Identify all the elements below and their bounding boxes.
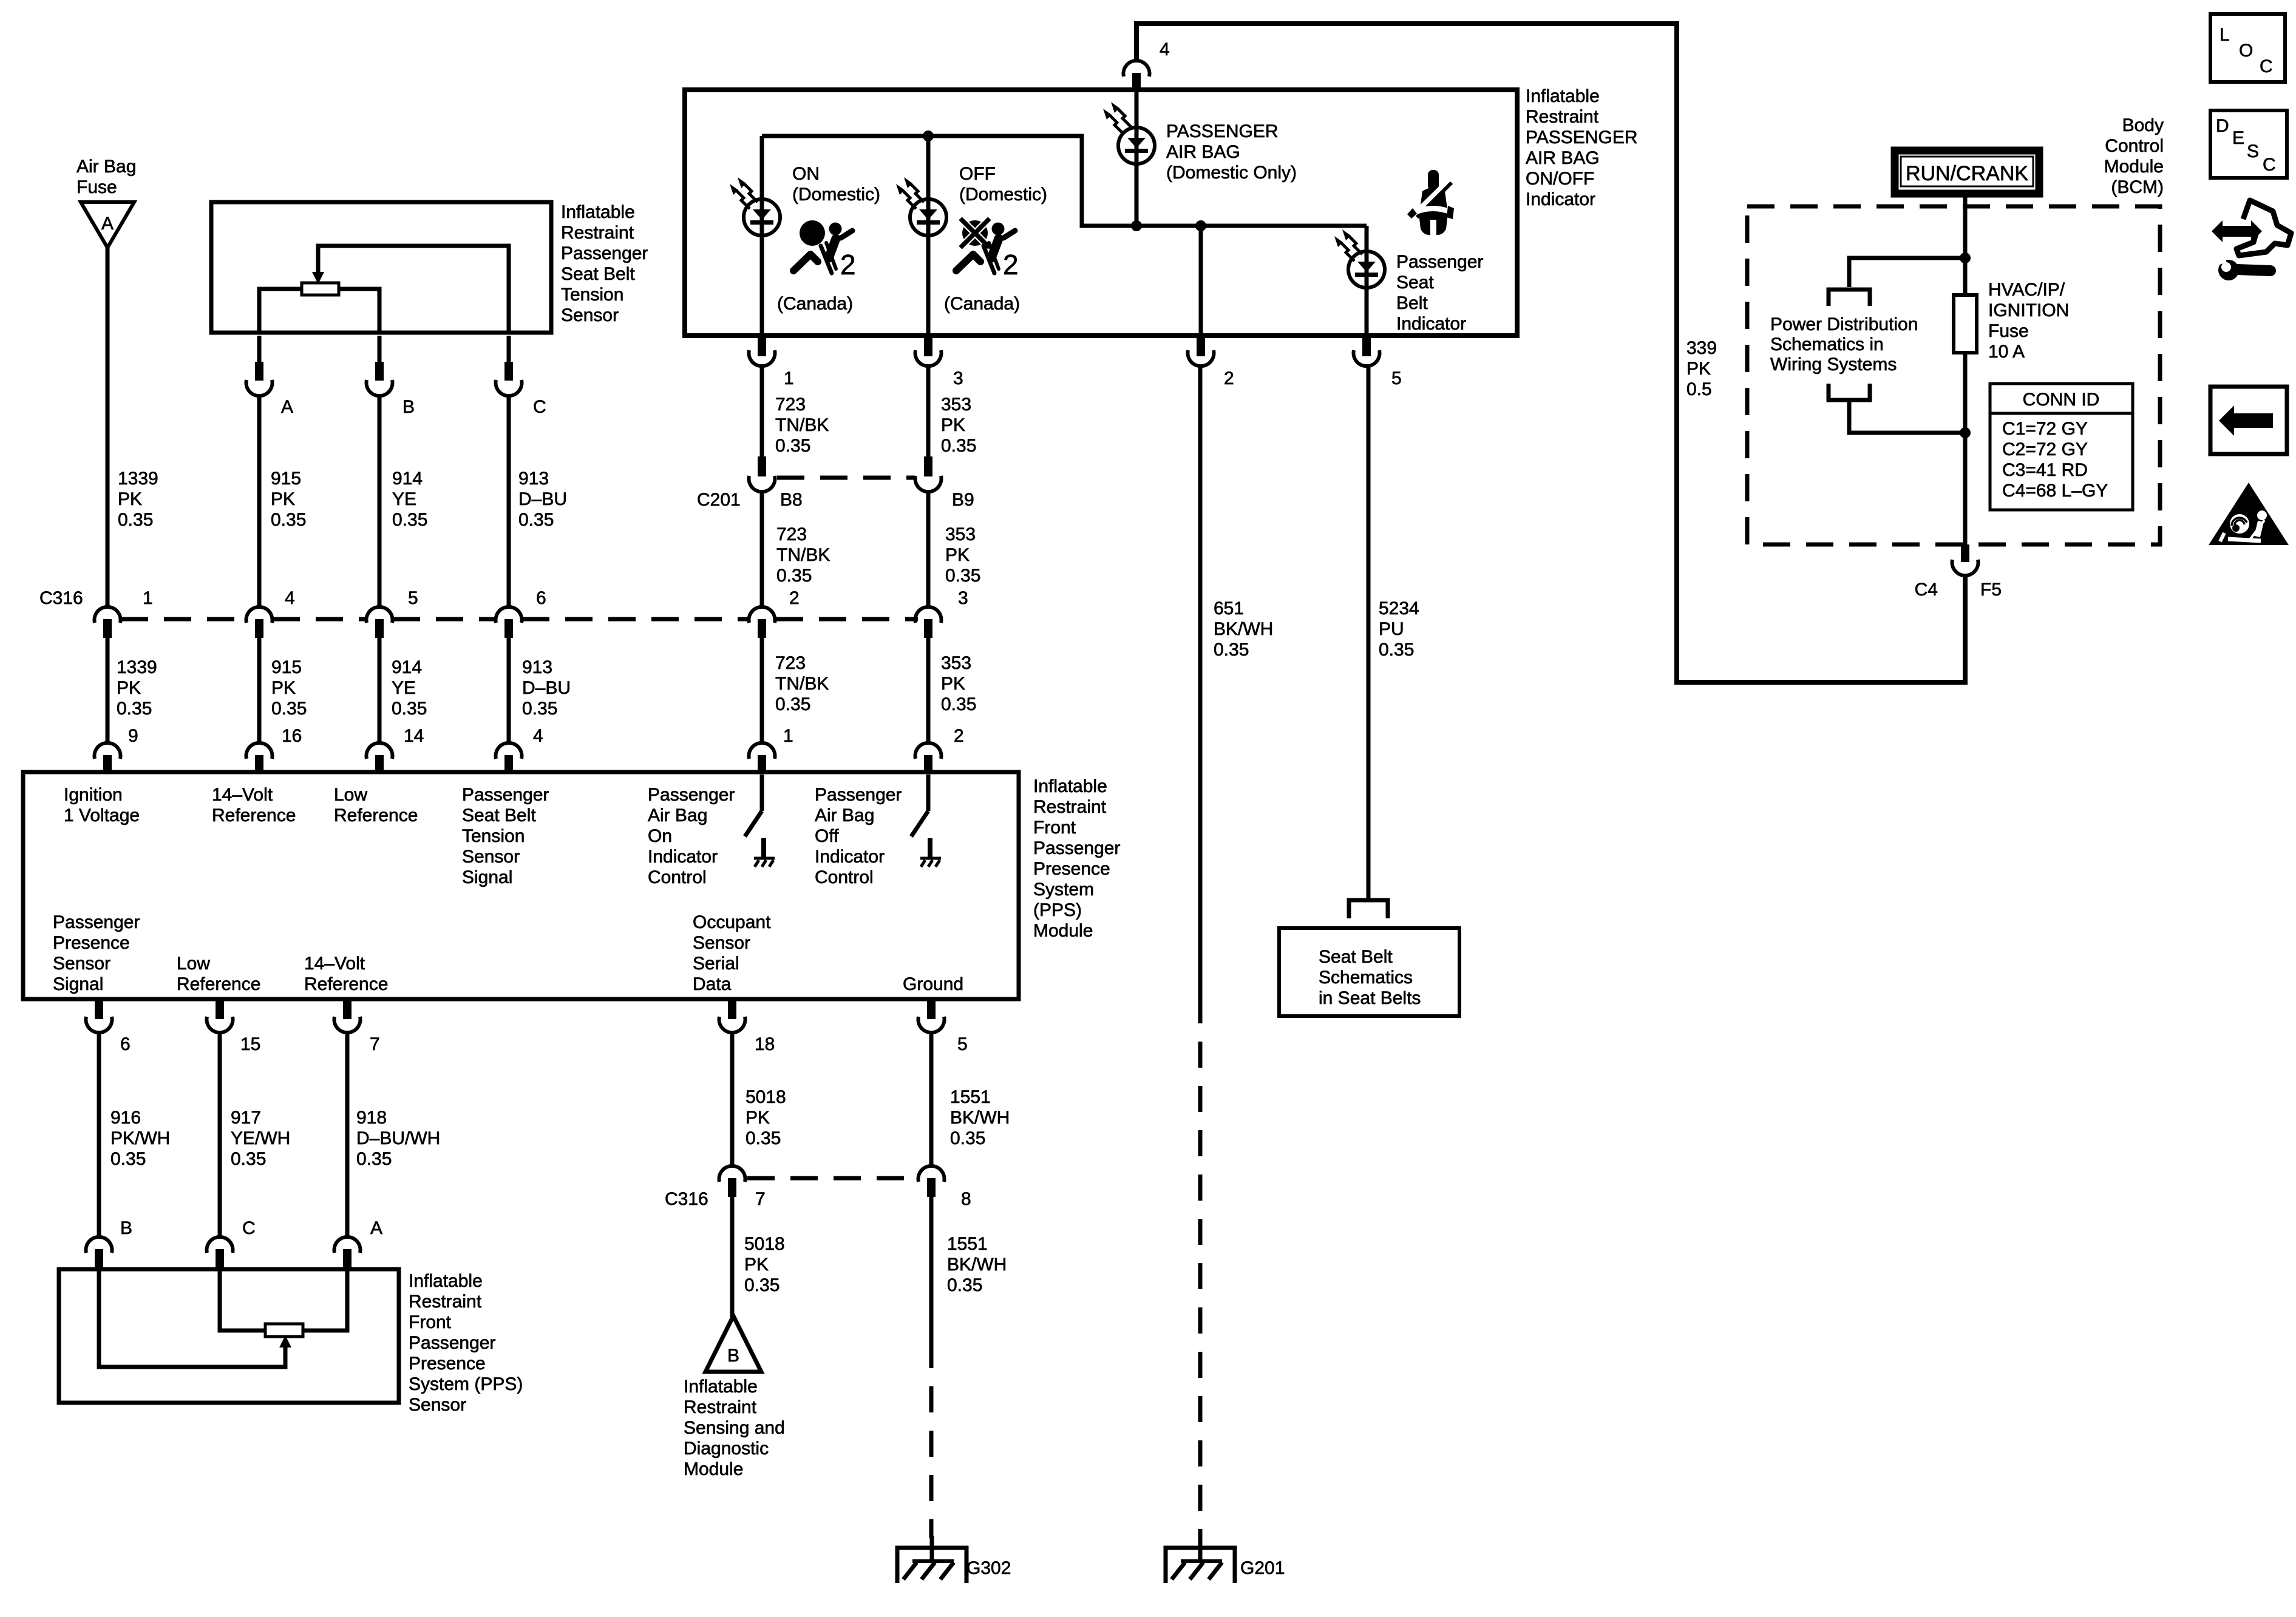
svg-text:On: On	[648, 826, 672, 846]
svg-text:Passenger: Passenger	[53, 912, 140, 932]
wire A leg inside sensor	[303, 1270, 347, 1331]
svg-text:Indicator: Indicator	[648, 847, 718, 867]
svg-text:YE: YE	[392, 678, 416, 698]
svg-text:723: 723	[775, 653, 806, 673]
svg-text:PK: PK	[941, 674, 965, 694]
wire label 353 PK 0.35	[945, 524, 980, 586]
svg-text:6: 6	[536, 588, 546, 608]
Air Bag Fuse label	[76, 157, 136, 197]
svg-text:1 Voltage: 1 Voltage	[64, 805, 140, 825]
svg-text:Occupant: Occupant	[693, 912, 771, 932]
svg-text:0.35: 0.35	[392, 699, 427, 719]
connector C4 F5	[1915, 544, 2002, 600]
svg-text:0.35: 0.35	[118, 510, 153, 530]
svg-text:C4=68 L–GY: C4=68 L–GY	[2002, 481, 2108, 501]
wire indicator pin5 down	[1367, 367, 1371, 898]
svg-text:TN/BK: TN/BK	[775, 674, 829, 694]
wire C316-1 to PPS pin 9	[106, 637, 110, 742]
switch on-indicator blade	[745, 811, 762, 836]
pin label 14-Volt Reference	[212, 785, 296, 825]
svg-text:A: A	[370, 1218, 382, 1238]
svg-text:1: 1	[783, 726, 793, 746]
svg-text:Low: Low	[334, 785, 367, 805]
svg-text:A: A	[281, 397, 293, 417]
wire B9 to C316-3	[926, 492, 931, 606]
pin label Passenger Presence Sensor Signal	[53, 912, 140, 994]
connector sensor pin A	[335, 1218, 383, 1268]
wire pin6 down	[97, 1033, 101, 1236]
svg-text:B8: B8	[780, 490, 803, 510]
CONN ID table	[1990, 384, 2133, 510]
svg-text:PK: PK	[746, 1108, 770, 1128]
svg-text:(BCM): (BCM)	[2111, 177, 2164, 197]
svg-text:(Domestic): (Domestic)	[792, 185, 880, 205]
svg-text:C: C	[2263, 155, 2276, 175]
svg-text:Wiring Systems: Wiring Systems	[1770, 354, 1897, 375]
upper bus wire	[762, 136, 1367, 226]
svg-text:7: 7	[370, 1034, 380, 1054]
svg-text:18: 18	[755, 1034, 775, 1054]
wire label 5018 PK 0.35	[744, 1234, 785, 1295]
wire pin7 down	[345, 1033, 350, 1236]
wire C316-8 solid part	[929, 1196, 934, 1342]
svg-text:C201: C201	[697, 490, 741, 510]
connector sensor pin C	[207, 1218, 256, 1268]
svg-text:PASSENGER: PASSENGER	[1166, 121, 1279, 141]
seat belt tension sensor box	[211, 202, 551, 333]
wire ON LED column	[760, 136, 764, 336]
svg-text:Schematics in: Schematics in	[1770, 334, 1884, 354]
wire C leg inside sensor	[220, 1270, 265, 1331]
svg-text:Sensor: Sensor	[561, 305, 619, 325]
svg-text:PK: PK	[945, 545, 970, 565]
C201 dashed line	[777, 476, 915, 480]
fuse symbol A (triangle)	[81, 202, 134, 248]
label PASSENGER AIR BAG (Domestic Only)	[1166, 121, 1297, 183]
wire pin1 to C201	[760, 367, 764, 456]
svg-text:Sensor: Sensor	[693, 933, 750, 953]
svg-text:in Seat Belts: in Seat Belts	[1319, 988, 1421, 1008]
svg-text:5: 5	[408, 588, 418, 608]
svg-text:C: C	[2260, 56, 2273, 76]
svg-text:15: 15	[240, 1034, 260, 1054]
wire label 651 BK/WH 0.35	[1214, 598, 1273, 660]
wire C leg with wiper arrow	[318, 246, 509, 333]
svg-text:(Domestic): (Domestic)	[959, 185, 1047, 205]
PPS sensor box	[59, 1269, 399, 1403]
wire A leg	[259, 289, 302, 333]
label OFF (Domestic)	[959, 164, 1047, 205]
svg-text:PK: PK	[271, 489, 295, 509]
svg-text:S: S	[2247, 141, 2259, 161]
LED passenger air bag	[1118, 127, 1155, 164]
svg-text:1: 1	[143, 588, 153, 608]
connector C316 pin 1	[95, 588, 153, 638]
svg-text:1339: 1339	[118, 469, 158, 489]
svg-text:Signal: Signal	[462, 867, 512, 887]
wire label 914 YE 0.35	[392, 469, 427, 530]
svg-text:9: 9	[128, 726, 138, 746]
svg-text:Passenger: Passenger	[648, 785, 735, 805]
svg-text:Front: Front	[1033, 818, 1076, 838]
svg-text:Signal: Signal	[53, 974, 103, 994]
svg-text:Reference: Reference	[334, 805, 418, 825]
lower bus continues to seat belt LED	[1365, 226, 1369, 336]
svg-text:Tension: Tension	[462, 826, 525, 846]
wire B to C316-5	[378, 396, 382, 606]
svg-text:D: D	[2216, 116, 2229, 136]
svg-text:System (PPS): System (PPS)	[409, 1374, 523, 1394]
svg-text:(PPS): (PPS)	[1033, 900, 1082, 920]
back arrow icon	[2210, 387, 2287, 454]
ground G201	[1166, 1536, 1285, 1583]
svg-text:Passenger: Passenger	[815, 785, 902, 805]
label Body Control Module (BCM)	[2104, 115, 2164, 197]
svg-text:PK: PK	[1686, 359, 1711, 379]
svg-text:BK/WH: BK/WH	[1214, 619, 1273, 639]
svg-text:B: B	[120, 1218, 132, 1238]
svg-text:0.35: 0.35	[110, 1149, 146, 1169]
connector C316 pin 6	[496, 588, 546, 638]
svg-text:Seat Belt: Seat Belt	[1319, 947, 1393, 967]
svg-text:TN/BK: TN/BK	[775, 415, 829, 435]
svg-text:339: 339	[1686, 338, 1717, 358]
connector pin B of sensor	[367, 336, 415, 417]
svg-text:Restraint: Restraint	[1033, 797, 1107, 817]
wire label 914 YE 0.35	[392, 657, 427, 719]
connector C316 pin 3	[915, 588, 968, 638]
wire label 1339 PK 0.35	[118, 469, 158, 530]
svg-text:BK/WH: BK/WH	[947, 1255, 1007, 1275]
svg-text:5234: 5234	[1379, 598, 1419, 619]
C316 dashed line	[121, 617, 246, 622]
svg-text:913: 913	[518, 469, 549, 489]
feed wire loop from BCM to pin 4	[1136, 24, 1965, 682]
svg-text:A: A	[101, 214, 114, 234]
svg-text:C3=41 RD: C3=41 RD	[2002, 460, 2088, 480]
svg-text:2: 2	[840, 249, 856, 280]
junction dot top	[1960, 253, 1971, 263]
switch off-indicator blade	[911, 811, 928, 836]
svg-text:Seat: Seat	[1396, 273, 1434, 293]
svg-text:4: 4	[285, 588, 295, 608]
connector C201 B8	[697, 456, 803, 510]
sensor box label	[561, 202, 648, 325]
svg-text:14: 14	[404, 726, 424, 746]
svg-text:0.5: 0.5	[1686, 379, 1712, 399]
wire label 723 TN/BK 0.35	[776, 524, 830, 586]
svg-text:L: L	[2220, 25, 2230, 45]
pin label Low Reference	[334, 785, 418, 825]
svg-text:917: 917	[231, 1108, 261, 1128]
airbag warning triangle icon	[2209, 483, 2289, 545]
pin label Ignition 1 Voltage	[64, 785, 140, 825]
svg-text:913: 913	[522, 657, 552, 677]
svg-text:(Domestic Only): (Domestic Only)	[1166, 163, 1297, 183]
seat belt LED	[1348, 251, 1385, 288]
svg-text:HVAC/IP/: HVAC/IP/	[1988, 280, 2065, 300]
seat belt LED arrows	[1334, 229, 1362, 261]
connector PPS pin 18	[719, 1000, 775, 1054]
wire indicator pin2 down solid	[1198, 367, 1203, 997]
indicator assembly label	[1526, 86, 1638, 209]
svg-text:7: 7	[755, 1189, 766, 1209]
wire label 723 TN/BK 0.35	[775, 395, 829, 456]
svg-text:5018: 5018	[746, 1087, 786, 1107]
svg-text:5: 5	[957, 1034, 968, 1054]
svg-text:4: 4	[533, 726, 543, 746]
wire label 723 TN/BK 0.35	[775, 653, 829, 714]
svg-text:Restraint: Restraint	[684, 1397, 757, 1417]
svg-text:PK: PK	[118, 489, 142, 509]
seat belt person icon	[1407, 170, 1454, 235]
PPS module box	[23, 772, 1019, 999]
svg-text:Restraint: Restraint	[409, 1292, 482, 1312]
svg-text:G302: G302	[966, 1558, 1011, 1578]
wire label 353 PK 0.35	[941, 653, 976, 714]
wire label 917 YE/WH 0.35	[231, 1108, 290, 1169]
svg-text:2: 2	[954, 726, 964, 746]
svg-text:Passenger: Passenger	[561, 243, 648, 263]
svg-text:OFF: OFF	[959, 164, 996, 184]
svg-text:2: 2	[1003, 249, 1019, 280]
wire pin18 to C316-7	[730, 1033, 735, 1165]
svg-text:Module: Module	[2104, 157, 2164, 177]
wire pin3 to C201	[926, 367, 931, 456]
svg-text:Air Bag: Air Bag	[648, 805, 707, 825]
wire pin4 down through main LED to bus	[1135, 91, 1139, 226]
wire B leg with wiper arrow	[99, 1270, 285, 1367]
svg-text:Reference: Reference	[177, 974, 260, 994]
wire label 916 PK/WH 0.35	[110, 1108, 170, 1169]
wire OFF LED column	[926, 136, 931, 336]
svg-text:E: E	[2232, 128, 2244, 148]
svg-text:651: 651	[1214, 598, 1244, 619]
svg-text:B9: B9	[952, 490, 974, 510]
svg-text:PK/WH: PK/WH	[110, 1128, 170, 1148]
svg-text:Sensor: Sensor	[53, 954, 110, 974]
svg-text:Presence: Presence	[1033, 859, 1110, 879]
svg-text:O: O	[2239, 41, 2253, 61]
connector C316 pin 4	[246, 588, 295, 638]
svg-text:10 A: 10 A	[1988, 342, 2025, 362]
svg-text:0.35: 0.35	[1379, 640, 1414, 660]
svg-text:Serial: Serial	[693, 954, 739, 974]
label HVAC/IP/ IGNITION Fuse 10 A	[1988, 280, 2069, 362]
svg-text:2: 2	[789, 588, 800, 608]
connector pin C of sensor	[496, 336, 546, 417]
LED arrows	[1103, 102, 1131, 134]
svg-text:Restraint: Restraint	[1526, 107, 1599, 127]
svg-text:0.35: 0.35	[117, 699, 152, 719]
svg-text:0.35: 0.35	[271, 510, 306, 530]
wire pin 2 column	[1199, 226, 1203, 336]
svg-text:C4: C4	[1915, 580, 1938, 600]
svg-text:0.35: 0.35	[775, 436, 810, 456]
BCM dashed box	[1747, 206, 2160, 544]
svg-text:(Canada): (Canada)	[777, 294, 853, 314]
svg-text:0.35: 0.35	[947, 1275, 982, 1295]
svg-text:Indicator: Indicator	[1396, 314, 1466, 334]
wire dashed to G302	[929, 1342, 934, 1538]
connector pin 3	[915, 337, 963, 388]
C316 second dashed line	[747, 1176, 916, 1181]
svg-text:723: 723	[776, 524, 807, 544]
seat belt schematics box	[1279, 928, 1459, 1016]
pin label Passenger Air Bag Off Indicator Control	[815, 785, 902, 887]
connector sensor pin B	[86, 1218, 133, 1268]
svg-text:Passenger: Passenger	[1033, 838, 1120, 858]
wire C316-7 to triangle B	[730, 1196, 735, 1317]
svg-text:Passenger: Passenger	[1396, 252, 1483, 272]
connector C316 pin 8	[919, 1166, 971, 1209]
svg-text:0.35: 0.35	[1214, 640, 1249, 660]
ON LED	[744, 199, 780, 236]
svg-text:Inflatable: Inflatable	[684, 1377, 758, 1397]
cross-reference repair icon	[2212, 200, 2291, 280]
wire fuse to C4 connector	[1963, 353, 1968, 544]
PPS sensor label	[409, 1271, 523, 1415]
svg-text:RUN/CRANK: RUN/CRANK	[1906, 162, 2028, 185]
svg-text:0.35: 0.35	[941, 694, 976, 714]
connector PPS pin 1	[749, 726, 793, 774]
connector PPS pin 2	[915, 726, 964, 774]
wire fuse to C316 pin 1	[106, 248, 110, 606]
svg-text:Air Bag: Air Bag	[815, 805, 874, 825]
svg-text:915: 915	[271, 657, 302, 677]
svg-text:Module: Module	[684, 1459, 743, 1479]
svg-text:Sensing and: Sensing and	[684, 1418, 785, 1438]
junction dot main led	[1131, 220, 1142, 231]
svg-text:B: B	[727, 1346, 739, 1366]
svg-text:C: C	[533, 397, 546, 417]
pin label Passenger Seat Belt Tension Sensor Signal	[462, 785, 549, 887]
svg-text:Seat Belt: Seat Belt	[561, 264, 635, 284]
svg-text:915: 915	[271, 469, 301, 489]
wire B8 to C316-2	[760, 492, 764, 606]
wire label 1551 BK/WH 0.35	[950, 1087, 1010, 1148]
svg-text:Reference: Reference	[212, 805, 296, 825]
wire label 913 D-BU 0.35	[518, 469, 567, 530]
svg-text:Body: Body	[2122, 115, 2164, 135]
pin label Low Reference	[177, 954, 260, 994]
svg-text:Presence: Presence	[53, 933, 130, 953]
svg-text:5: 5	[1391, 368, 1402, 388]
svg-text:IGNITION: IGNITION	[1988, 300, 2069, 320]
svg-text:916: 916	[110, 1108, 141, 1128]
svg-text:353: 353	[941, 653, 971, 673]
svg-text:3: 3	[958, 588, 968, 608]
svg-text:0.35: 0.35	[356, 1149, 392, 1169]
svg-text:Belt: Belt	[1396, 293, 1428, 313]
svg-text:Reference: Reference	[304, 974, 388, 994]
pin label 14-Volt Reference	[304, 954, 388, 994]
svg-text:AIR BAG: AIR BAG	[1526, 148, 1600, 168]
svg-text:2: 2	[1224, 368, 1234, 388]
connector PPS pin 6	[86, 1000, 131, 1054]
svg-text:Control: Control	[648, 867, 707, 887]
svg-text:Fuse: Fuse	[1988, 321, 2029, 341]
svg-text:Data: Data	[693, 974, 732, 994]
wire label 913 D-BU 0.35	[522, 657, 571, 719]
svg-text:BK/WH: BK/WH	[950, 1108, 1010, 1128]
wire C316-2 to PPS pin 1	[760, 637, 764, 742]
svg-text:1: 1	[784, 368, 794, 388]
svg-text:PK: PK	[744, 1255, 769, 1275]
wire B leg	[339, 289, 379, 333]
svg-text:C2=72 GY: C2=72 GY	[2002, 439, 2088, 459]
wire A to C316-4	[257, 396, 262, 606]
svg-text:0.35: 0.35	[392, 510, 427, 530]
connector PPS pin 4	[496, 726, 543, 774]
svg-text:353: 353	[945, 524, 976, 544]
svg-text:C: C	[242, 1218, 256, 1238]
junction dot pin2	[1195, 220, 1206, 231]
wire C316-4 to PPS pin 16	[257, 637, 262, 742]
wire label 353 PK 0.35	[941, 395, 976, 456]
connector PPS pin 7	[335, 1000, 380, 1054]
svg-text:G201: G201	[1240, 1558, 1285, 1578]
junction dot OFF led	[923, 131, 934, 141]
svg-text:0.35: 0.35	[522, 699, 557, 719]
svg-text:Inflatable: Inflatable	[561, 202, 635, 222]
svg-text:Ignition: Ignition	[64, 785, 123, 805]
LOC icon	[2210, 14, 2285, 82]
connector PPS pin 16	[246, 726, 302, 774]
wire C316-3 to PPS pin 2	[926, 637, 931, 742]
svg-text:PK: PK	[271, 678, 296, 698]
svg-text:D–BU: D–BU	[518, 489, 567, 509]
wire pin15 down	[218, 1033, 222, 1236]
svg-text:Off: Off	[815, 826, 839, 846]
wire label 918 D-BU/WH 0.35	[356, 1108, 440, 1169]
connector PPS pin 5	[919, 1000, 968, 1054]
switch on-indicator ground	[754, 838, 775, 867]
svg-text:B: B	[402, 397, 415, 417]
svg-text:14–Volt: 14–Volt	[212, 785, 273, 805]
svg-text:Indicator: Indicator	[815, 847, 885, 867]
wiper arrowhead	[312, 272, 324, 284]
connector pin 5	[1354, 337, 1402, 388]
svg-text:0.35: 0.35	[744, 1275, 779, 1295]
connector PPS pin 9	[95, 726, 138, 774]
wire label 5234 PU 0.35	[1379, 598, 1419, 660]
PPS module label	[1033, 776, 1120, 941]
svg-text:3: 3	[953, 368, 963, 388]
svg-text:Inflatable: Inflatable	[1033, 776, 1107, 796]
power distribution lower bracket	[1829, 384, 1870, 400]
svg-text:914: 914	[392, 469, 423, 489]
svg-text:ON: ON	[792, 164, 820, 184]
svg-text:ON/OFF: ON/OFF	[1526, 169, 1594, 189]
svg-text:Schematics: Schematics	[1319, 968, 1413, 988]
svg-text:TN/BK: TN/BK	[776, 545, 830, 565]
junction dot bottom	[1960, 427, 1971, 438]
connector C201 B9	[915, 456, 974, 510]
svg-text:Inflatable: Inflatable	[1526, 86, 1600, 106]
svg-text:6: 6	[120, 1034, 131, 1054]
svg-text:C1=72 GY: C1=72 GY	[2002, 419, 2088, 439]
potentiometer resistor	[302, 283, 339, 295]
wire label 339 PK 0.5	[1686, 338, 1717, 399]
svg-text:Presence: Presence	[409, 1354, 486, 1374]
wire branch to power distribution	[1849, 258, 1965, 287]
wiper arrowhead up	[279, 1335, 291, 1347]
svg-text:1551: 1551	[950, 1087, 991, 1107]
wire label 5018 PK 0.35	[746, 1087, 786, 1148]
label ON (Domestic)	[792, 164, 880, 205]
svg-text:16: 16	[282, 726, 302, 746]
